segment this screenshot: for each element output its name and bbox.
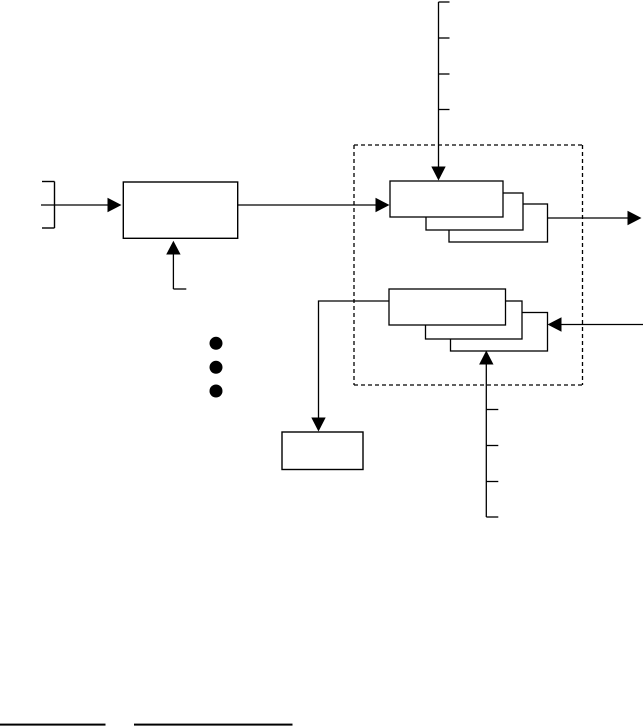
control wire rising into B1 xyxy=(173,255,186,290)
top register stack: middle card xyxy=(426,193,523,230)
bottom register stack: back card xyxy=(451,313,548,352)
dashed enclosure box xyxy=(354,145,583,385)
arrowhead into top register stack xyxy=(431,167,445,181)
wire B1 to top register stack xyxy=(238,204,376,206)
wire from bottom stack down-left to block B2 xyxy=(319,301,390,418)
arrowhead into bottom register stack from below xyxy=(479,351,493,365)
top register stack: front card xyxy=(390,181,503,217)
arrowhead output right xyxy=(628,211,642,225)
block B2 xyxy=(282,432,363,470)
arrowhead into block B2 xyxy=(311,418,325,432)
vertical ellipsis dots xyxy=(210,337,223,398)
arrowhead into bottom of B1 xyxy=(166,241,180,255)
arrowhead into block B1 xyxy=(108,198,122,212)
block B1 xyxy=(123,182,237,238)
footer rule left xyxy=(0,724,106,726)
footer rule right xyxy=(134,724,293,726)
top input bus wire (vertical with tick marks) xyxy=(439,2,450,167)
arrowhead into top register stack left xyxy=(376,198,390,212)
top register stack: back card xyxy=(449,204,548,242)
input wire from the right xyxy=(562,324,643,326)
bottom input bus wire (vertical with tick marks) xyxy=(486,365,498,518)
arrowhead into bottom register stack right xyxy=(548,317,562,331)
output wire to the right xyxy=(548,217,629,219)
wire bracket to block B1 xyxy=(41,204,108,206)
bottom register stack: front card xyxy=(389,289,506,325)
bottom register stack: middle card xyxy=(426,301,523,339)
input terminal bracket xyxy=(42,182,55,229)
